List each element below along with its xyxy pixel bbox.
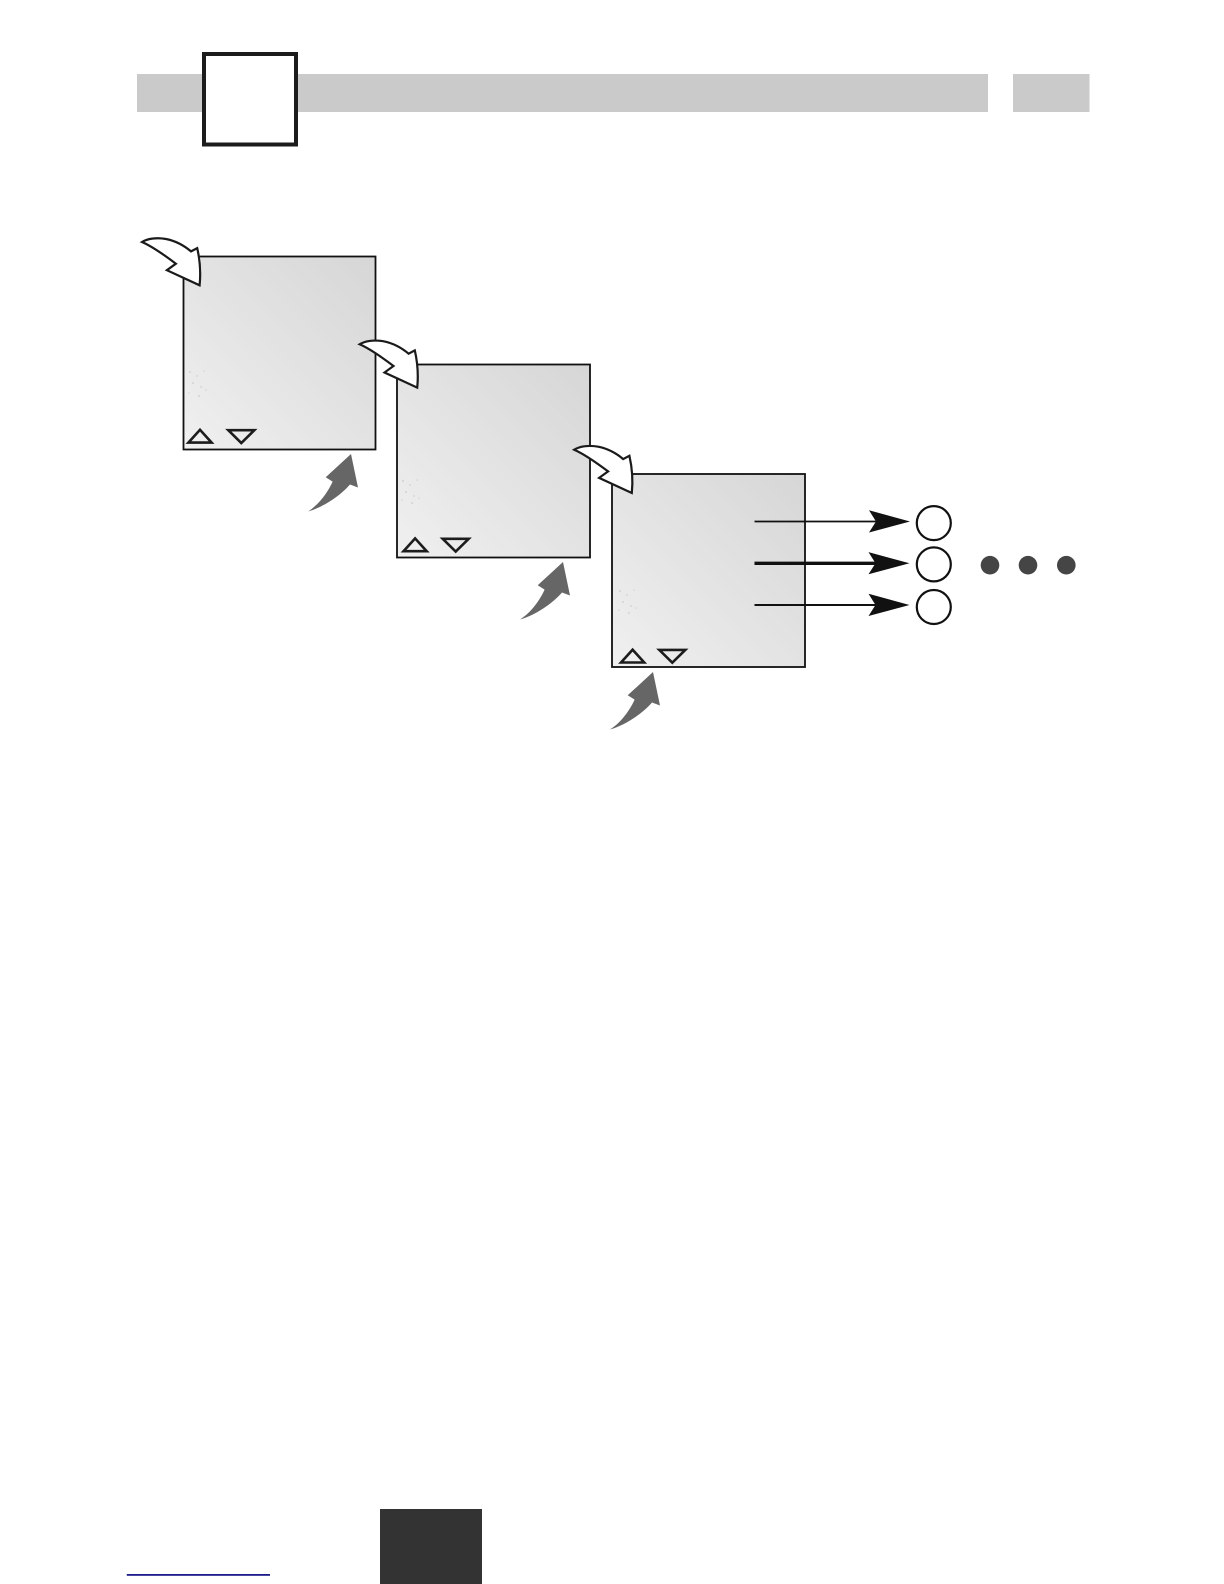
option circle 2 — [917, 547, 951, 581]
ellipsis dot 2 — [1019, 556, 1038, 575]
output arrow line 1 — [755, 521, 891, 523]
screen 2 down-triangle button — [443, 539, 469, 552]
output arrow line 3 — [755, 604, 891, 606]
faint print speckles screen 2 — [401, 479, 420, 504]
output arrowhead 1 — [869, 510, 910, 532]
screen 2 up-triangle button — [404, 538, 427, 551]
footer blue rule — [127, 1574, 270, 1576]
output arrowhead 3 — [869, 594, 910, 616]
white curved arrow screen2 to screen3 — [574, 446, 632, 493]
white curved arrow screen1 to screen2 — [360, 341, 418, 388]
option circle 1 — [917, 506, 951, 540]
chapter number box — [204, 54, 296, 145]
screen 3 up-triangle button — [621, 650, 644, 663]
faint print speckles screen 1 — [188, 370, 207, 397]
white curved arrow into screen 1 — [142, 238, 200, 285]
gray curved arrow under screen 3 — [610, 672, 660, 730]
ellipsis dot 1 — [981, 556, 1000, 575]
screen 2 — [397, 365, 590, 558]
gray curved arrow under screen 1 — [308, 454, 358, 512]
option circle 3 — [917, 590, 951, 624]
output arrow line 2 (thick) — [755, 562, 891, 565]
output arrowhead 2 — [869, 552, 910, 574]
footer page-number block — [380, 1509, 482, 1584]
header band short right — [1013, 74, 1090, 112]
gray curved arrow under screen 2 — [520, 562, 570, 620]
screen 3 down-triangle button — [659, 650, 685, 663]
screen 1 — [184, 257, 376, 450]
screen 1 up-triangle button — [188, 430, 211, 443]
faint print speckles screen 3 — [618, 589, 637, 614]
screen 3 — [612, 474, 805, 667]
ellipsis dot 3 — [1057, 556, 1076, 575]
screen 1 down-triangle button — [228, 430, 254, 443]
header band long — [137, 74, 988, 112]
